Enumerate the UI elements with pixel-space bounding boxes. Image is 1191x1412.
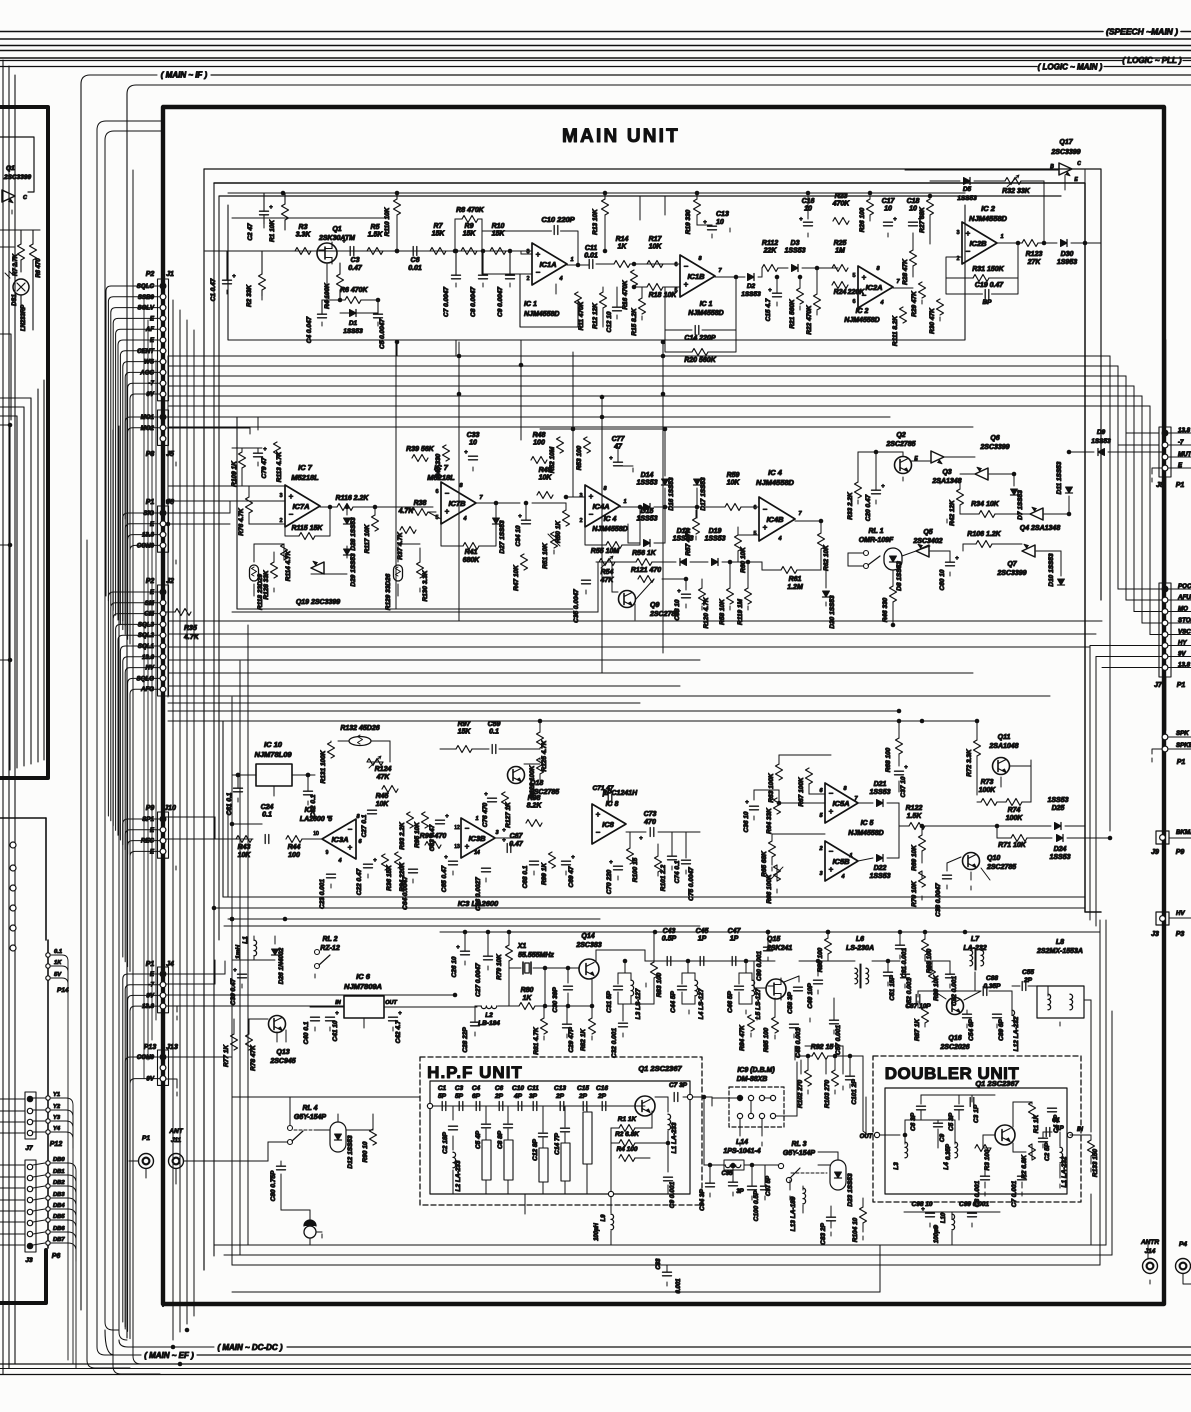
svg-text:+: + xyxy=(862,273,867,282)
svg-text:L2 LA-233: L2 LA-233 xyxy=(455,1160,462,1191)
diode D21 1SS53 xyxy=(877,800,884,807)
resistor R23 470K xyxy=(833,218,849,225)
ground J11 xyxy=(175,1180,177,1184)
wire Q5 sw xyxy=(848,552,863,554)
inductor L4 LS-127 xyxy=(695,980,698,996)
wire q9 bus xyxy=(232,611,598,613)
capacitor C2 5P doubler xyxy=(1039,1137,1048,1139)
svg-text:C101 2P: C101 2P xyxy=(851,1079,858,1105)
svg-text:IC3: IC3 xyxy=(305,807,316,814)
svg-text:L14: L14 xyxy=(736,1139,748,1146)
svg-text:H.P.F UNIT: H.P.F UNIT xyxy=(427,1063,523,1082)
svg-text:R103 270: R103 270 xyxy=(824,1080,831,1109)
resistor R133 150 xyxy=(1088,1140,1095,1156)
svg-text:Q13: Q13 xyxy=(276,1049,289,1056)
pin 13.8 xyxy=(1162,665,1168,671)
svg-text:D24: D24 xyxy=(1054,846,1067,853)
svg-text:+: + xyxy=(571,855,575,861)
svg-text:Q1 2SC2367: Q1 2SC2367 xyxy=(975,1079,1019,1088)
wire relay right xyxy=(916,546,930,551)
svg-text:P9: P9 xyxy=(1176,849,1185,856)
capacitor C46 5P xyxy=(735,985,744,987)
svg-text:NJM4558D: NJM4558D xyxy=(524,311,559,318)
capacitor C77 47 xyxy=(614,461,623,463)
svg-text:1K: 1K xyxy=(54,960,62,966)
svg-text:C98 10: C98 10 xyxy=(912,1201,933,1208)
svg-text:2P: 2P xyxy=(555,1093,565,1100)
connector bus vertical xyxy=(162,270,164,1306)
svg-text:R2 33K: R2 33K xyxy=(246,284,253,307)
capacitor C4 6P xyxy=(475,1102,477,1111)
svg-text:D5: D5 xyxy=(963,186,972,193)
capacitor C42 4.7 xyxy=(389,1016,398,1018)
svg-text:D3: D3 xyxy=(791,240,800,247)
svg-text:0.1: 0.1 xyxy=(489,729,499,736)
svg-text:6: 6 xyxy=(852,299,855,305)
svg-text:10: 10 xyxy=(313,831,319,837)
connector P8 J5 xyxy=(158,410,169,445)
svg-text:0.001: 0.001 xyxy=(676,1278,682,1294)
wire hpf out to dbm xyxy=(693,1096,712,1098)
resistor R4 100K xyxy=(337,274,344,290)
svg-text:R132 45D26: R132 45D26 xyxy=(340,725,379,732)
resistor R80 1K xyxy=(519,1003,535,1010)
resistor R68 100 xyxy=(896,738,903,754)
diode D27 1SS53 xyxy=(493,518,500,524)
wire right margin verticals xyxy=(1109,356,1111,831)
svg-text:2SC2785: 2SC2785 xyxy=(885,441,915,448)
capacitor C79 47 xyxy=(254,452,263,454)
resistor R64 33K xyxy=(774,798,781,814)
svg-text:C32 0.001: C32 0.001 xyxy=(611,1028,618,1058)
wire bus A6 xyxy=(168,405,1150,407)
svg-text:2P: 2P xyxy=(578,1093,588,1100)
svg-text:2P: 2P xyxy=(597,1093,607,1100)
capacitor C23 0.001 xyxy=(327,873,336,875)
svg-text:8.2K: 8.2K xyxy=(527,803,543,810)
resistor R13 10K xyxy=(602,199,609,215)
op-amp IC3B xyxy=(461,818,495,858)
op-amp IC4A xyxy=(585,485,620,527)
svg-text:C58 3P: C58 3P xyxy=(787,991,794,1013)
svg-text:R93 2.2K: R93 2.2K xyxy=(399,821,406,850)
svg-text:C7 0.0047: C7 0.0047 xyxy=(443,287,450,317)
svg-text:C83 2P: C83 2P xyxy=(820,1222,827,1244)
wire Q17 b xyxy=(905,169,1058,171)
resistor R96 470 xyxy=(425,842,441,849)
svg-text:( MAIN ~ EF ): ( MAIN ~ EF ) xyxy=(144,1351,194,1360)
svg-text:−: − xyxy=(684,262,689,271)
svg-text:−: − xyxy=(589,510,594,519)
svg-text:C15 4.7: C15 4.7 xyxy=(765,298,772,321)
capacitor C97 5P xyxy=(761,1185,770,1187)
wire bottom left risers xyxy=(67,969,69,1360)
transistor Q13 2SC945 xyxy=(269,1016,286,1033)
ground near J13 xyxy=(176,1092,178,1096)
wire IC2B fb xyxy=(946,243,1018,294)
svg-text:R77 1K: R77 1K xyxy=(223,1044,230,1067)
wire IC7B out xyxy=(476,502,520,504)
svg-text:P1: P1 xyxy=(146,499,155,506)
wire strip1 right rail xyxy=(605,192,965,194)
svg-text:−: − xyxy=(465,824,470,833)
svg-text:IC 4: IC 4 xyxy=(768,468,783,477)
ground hpf xyxy=(524,1210,526,1214)
svg-text:DB7: DB7 xyxy=(53,1237,65,1243)
transistor Q3 2SA1348 xyxy=(975,467,988,480)
svg-text:C48 0.001: C48 0.001 xyxy=(795,1028,802,1058)
svg-text:1: 1 xyxy=(1000,234,1003,240)
left unit lower wire column xyxy=(47,940,49,1248)
svg-text:R25: R25 xyxy=(834,240,847,247)
svg-text:+: + xyxy=(342,239,346,245)
resistor R65 68K xyxy=(769,841,776,857)
svg-text:BP: BP xyxy=(982,299,992,306)
svg-text:R3: R3 xyxy=(299,224,308,231)
svg-text:100µƟ: 100µƟ xyxy=(934,1225,940,1243)
svg-text:R39 56K: R39 56K xyxy=(406,446,435,453)
resistor R77 1K xyxy=(231,1034,238,1050)
svg-text:RL 4: RL 4 xyxy=(302,1105,317,1112)
svg-text:4: 4 xyxy=(777,536,781,542)
capacitor C9 0.001 hpf xyxy=(664,1176,673,1178)
svg-text:C: C xyxy=(1077,161,1081,167)
svg-text:14: 14 xyxy=(474,850,480,856)
resistor R2 6.8K hpf xyxy=(619,1140,635,1147)
capacitor C87 10P xyxy=(915,995,917,1004)
svg-text:IC2B: IC2B xyxy=(969,239,987,248)
connector J3 P6 xyxy=(25,1160,36,1252)
svg-text:D7 1SS53: D7 1SS53 xyxy=(1017,490,1024,520)
wire top bus 3 xyxy=(0,45,1191,47)
svg-text:IC5B: IC5B xyxy=(832,857,850,866)
svg-text:C93: C93 xyxy=(656,1258,662,1270)
wire top bus 4 xyxy=(0,50,1191,52)
resistor R87 1K xyxy=(922,1007,929,1023)
svg-text:+: + xyxy=(269,205,273,211)
svg-text:D30: D30 xyxy=(1061,251,1074,258)
svg-text:1.5K: 1.5K xyxy=(368,232,384,239)
svg-text:R72 3.3K: R72 3.3K xyxy=(966,748,973,777)
svg-text:15K: 15K xyxy=(492,231,506,238)
op-amp IC1A xyxy=(532,243,567,285)
capacitor C78 10 xyxy=(682,593,691,595)
pin 0.1 xyxy=(46,953,50,957)
ground near J5 xyxy=(175,462,177,466)
resistor R7 15K xyxy=(430,248,446,255)
svg-text:P3: P3 xyxy=(1176,931,1185,938)
capacitor C63 0.47 xyxy=(436,819,445,821)
svg-text:10K: 10K xyxy=(238,852,252,859)
wire rl4 xyxy=(317,1129,330,1131)
wire IC4A out xyxy=(620,506,647,508)
svg-text:IC 2: IC 2 xyxy=(856,308,869,315)
svg-text:+: + xyxy=(745,800,749,806)
svg-text:NJM4558D: NJM4558D xyxy=(688,310,723,317)
svg-text:R13 10K: R13 10K xyxy=(592,208,599,235)
wire bus B5 xyxy=(168,672,973,674)
svg-text:D29 1SS53: D29 1SS53 xyxy=(350,553,357,587)
pin DB7 xyxy=(46,1241,50,1245)
svg-text:OUT: OUT xyxy=(385,1000,397,1006)
pin REC xyxy=(160,838,166,844)
svg-text:0.47: 0.47 xyxy=(348,265,363,272)
svg-text:Y1: Y1 xyxy=(53,1092,60,1098)
svg-text:+: + xyxy=(768,288,772,294)
svg-text:R121 470: R121 470 xyxy=(631,567,661,574)
resistor R102 270 xyxy=(805,1070,812,1086)
capacitor C22 0.47 xyxy=(364,863,373,865)
svg-text:L5 LS-127: L5 LS-127 xyxy=(755,988,762,1019)
pin MO2 xyxy=(160,425,166,431)
pin DB0 xyxy=(46,1161,50,1165)
svg-text:R12 12K: R12 12K xyxy=(592,302,599,329)
diode D12 1SS53 xyxy=(335,1134,342,1140)
wire bottom bus (MAIN~EF) xyxy=(105,1330,141,1355)
resistor R105 xyxy=(862,1198,864,1207)
pin AGC xyxy=(160,370,166,376)
wire doubler nets xyxy=(904,1135,906,1144)
svg-text:R10: R10 xyxy=(492,223,505,230)
DBM pin xyxy=(737,1113,742,1118)
svg-text:R80: R80 xyxy=(521,987,534,994)
resistor R50 1K xyxy=(563,510,570,526)
op-amp IC8 xyxy=(592,804,626,844)
wire IC1B out xyxy=(715,276,745,278)
wire R92 rail xyxy=(797,1055,812,1057)
svg-text:R97: R97 xyxy=(458,721,472,728)
ground near SPK xyxy=(1151,758,1153,762)
svg-text:R47 10K: R47 10K xyxy=(513,564,520,591)
svg-text:R89 10K: R89 10K xyxy=(933,974,940,1001)
wire top bus 2 xyxy=(0,38,1191,40)
capacitor C91 0.001 xyxy=(896,944,905,946)
capacitor C34 10 xyxy=(522,519,531,521)
capacitor C16 10 xyxy=(804,221,813,223)
svg-text:R27 68K: R27 68K xyxy=(919,206,926,233)
svg-text:1S953: 1S953 xyxy=(1057,259,1077,266)
svg-text:R115 15K: R115 15K xyxy=(291,525,323,532)
transistor Q1 2SC2367 hpf xyxy=(635,1096,655,1116)
capacitor C9 0.0047 xyxy=(506,274,515,276)
svg-text:2SC2026: 2SC2026 xyxy=(939,1044,969,1051)
wire D3 node xyxy=(758,276,762,278)
svg-text:R81 4.7K: R81 4.7K xyxy=(533,1026,540,1055)
svg-text:R61: R61 xyxy=(789,576,802,583)
svg-text:2: 2 xyxy=(279,518,282,524)
resistor R121 470 xyxy=(638,576,654,583)
svg-text:R112: R112 xyxy=(762,240,778,247)
svg-text:L6: L6 xyxy=(856,936,864,943)
ground C13 xyxy=(729,228,731,232)
capacitor C70 220 xyxy=(614,865,623,867)
LED DS1 LN233RP xyxy=(13,279,29,295)
inductor L1 1mH xyxy=(254,940,257,956)
svg-text:L10: L10 xyxy=(941,1212,947,1223)
svg-text:3: 3 xyxy=(819,871,822,877)
diode D23 1SS53 xyxy=(830,1160,846,1190)
wire strip1 inner rail xyxy=(228,192,965,194)
resistor R127 4.7K xyxy=(400,527,416,534)
pin SQLC xyxy=(160,283,166,289)
H.P.F UNIT box xyxy=(420,1057,702,1205)
svg-text:Q18: Q18 xyxy=(530,780,543,787)
wire IC8 out xyxy=(626,831,646,833)
H.P.F output node xyxy=(687,1094,692,1099)
svg-text:P14: P14 xyxy=(57,987,69,994)
svg-text:R113 4.7K: R113 4.7K xyxy=(276,450,283,482)
diode D29 1SS53 xyxy=(344,549,351,555)
svg-text:C46 5P: C46 5P xyxy=(727,990,734,1012)
inductor L10 100uH xyxy=(952,1214,955,1230)
svg-text:1SS53: 1SS53 xyxy=(784,248,805,255)
capacitor C54 6P xyxy=(963,1013,972,1015)
wire dbm xyxy=(711,1097,713,1098)
svg-text:R98: R98 xyxy=(528,795,541,802)
wire R132 net xyxy=(338,740,349,742)
resistor R45 10K xyxy=(382,786,398,793)
pin AFG xyxy=(160,686,166,692)
resistor R9 15K xyxy=(461,248,477,255)
resistor R4 100 hpf xyxy=(619,1155,635,1162)
wire MO feeds xyxy=(166,416,258,418)
inductor L2 LB-184 xyxy=(481,1006,497,1009)
svg-text:+: + xyxy=(502,838,506,844)
svg-text:1SS53: 1SS53 xyxy=(957,195,977,202)
svg-text:1P: 1P xyxy=(730,936,739,943)
pin E xyxy=(160,521,166,527)
inductor L2 LA-233 xyxy=(453,1152,456,1168)
resistor R52 10M xyxy=(557,437,564,453)
svg-text:+: + xyxy=(232,274,236,280)
svg-text:+: + xyxy=(639,836,643,842)
svg-text:Q14: Q14 xyxy=(581,933,594,940)
resistor R21 560K xyxy=(797,288,804,304)
svg-text:55.555MHz: 55.555MHz xyxy=(518,952,554,959)
svg-text:C11: C11 xyxy=(527,1085,539,1092)
svg-text:2: 2 xyxy=(818,846,822,852)
capacitor C2 18P xyxy=(449,1125,458,1127)
wire bundle C below IC3 xyxy=(214,907,1085,909)
wire bottom power xyxy=(904,1211,1000,1213)
svg-text:( LOGIC ~ PLL ): ( LOGIC ~ PLL ) xyxy=(1122,56,1182,65)
resistor R66 100K xyxy=(774,865,781,881)
pin Y3 xyxy=(46,1119,50,1123)
inductor L5 LS-127 xyxy=(752,980,755,996)
svg-text:R7 2.7K: R7 2.7K xyxy=(13,253,19,276)
svg-text:3: 3 xyxy=(279,493,282,499)
svg-text:5P: 5P xyxy=(438,1093,447,1100)
svg-text:C77: C77 xyxy=(612,436,626,443)
svg-text:( MAIN ~ DC-DC ): ( MAIN ~ DC-DC ) xyxy=(217,1343,282,1352)
resistor R59 10K xyxy=(725,504,741,511)
pin CON9 xyxy=(160,543,166,549)
svg-text:4: 4 xyxy=(337,858,341,864)
wire strip3 lower rail xyxy=(596,561,636,563)
svg-text:R53 100: R53 100 xyxy=(576,445,583,470)
svg-text:0.5P: 0.5P xyxy=(662,936,677,943)
resistor R89 10K xyxy=(929,966,936,982)
svg-text:C90 0.001: C90 0.001 xyxy=(756,951,763,981)
pin E xyxy=(160,337,166,343)
svg-text:R8 470K: R8 470K xyxy=(456,207,485,214)
wire bottom left elbow extra xyxy=(87,540,130,1368)
wire R6 net xyxy=(322,299,345,301)
wire rl4 to hpf xyxy=(289,1097,291,1125)
resistor R86 100 xyxy=(825,938,832,954)
svg-text:C57 0.001: C57 0.001 xyxy=(835,1025,842,1055)
capacitor C37 10 xyxy=(895,770,904,772)
svg-text:IC 6: IC 6 xyxy=(356,972,371,981)
svg-text:−: − xyxy=(862,291,867,300)
resistor R7 2.7K xyxy=(18,244,25,260)
pin WS xyxy=(160,359,166,365)
svg-text:R28 47K: R28 47K xyxy=(902,258,909,285)
pin CM xyxy=(160,611,166,617)
resistor R43 10K xyxy=(236,836,252,843)
svg-text:2SC2785: 2SC2785 xyxy=(649,611,679,618)
wire ant to rl4 xyxy=(184,1160,268,1162)
wire bottom bus 5 xyxy=(0,1374,1191,1376)
svg-text:LA2600 '5: LA2600 '5 xyxy=(300,816,333,823)
svg-text:+: + xyxy=(904,765,908,771)
capacitor C48 0.001 xyxy=(790,1023,799,1025)
svg-text:C2 5P: C2 5P xyxy=(1044,1142,1051,1161)
svg-text:5: 5 xyxy=(674,288,677,294)
capacitor C80 0.75P xyxy=(277,1165,286,1167)
svg-text:C5 3P: C5 3P xyxy=(948,1112,955,1131)
wire bottom bus 4 xyxy=(0,1368,1191,1370)
resistor R113 4.7K xyxy=(274,442,281,458)
wire right bottom xyxy=(1090,1194,1092,1245)
svg-text:5: 5 xyxy=(753,531,756,537)
svg-text:SPKE: SPKE xyxy=(1176,742,1191,749)
svg-text:C35 0.0047: C35 0.0047 xyxy=(573,589,580,623)
svg-text:R35: R35 xyxy=(184,625,197,632)
svg-text:L1: L1 xyxy=(242,936,249,944)
svg-text:1SS53: 1SS53 xyxy=(1091,438,1111,445)
resistor R27 68K xyxy=(927,199,934,215)
resistor R57 4.7K xyxy=(693,518,700,534)
capacitor C13 10 xyxy=(708,225,717,227)
svg-text:R26 100: R26 100 xyxy=(859,207,866,232)
resistor R32 33K xyxy=(1005,178,1021,185)
svg-text:C12 10: C12 10 xyxy=(606,311,613,332)
svg-text:J7: J7 xyxy=(1154,682,1163,689)
svg-text:ANT: ANT xyxy=(168,1128,183,1135)
svg-text:C9 0.0047: C9 0.0047 xyxy=(497,287,504,317)
svg-text:C74 0.1: C74 0.1 xyxy=(674,860,681,883)
svg-text:+: + xyxy=(445,814,449,820)
svg-text:P2: P2 xyxy=(146,271,155,278)
capacitor C33 10 xyxy=(469,455,478,457)
wire bottom H.P.F feed xyxy=(232,1096,420,1098)
svg-text:R60 10K: R60 10K xyxy=(740,546,747,573)
svg-text:+: + xyxy=(677,589,681,595)
pin DB1 xyxy=(46,1173,50,1177)
op-amp IC3A xyxy=(322,819,356,859)
wire bus A2 xyxy=(168,365,1118,367)
transistor Q19 2SC3399 xyxy=(311,561,324,574)
svg-text:D23 1SS53: D23 1SS53 xyxy=(847,1173,854,1207)
svg-text:Q9: Q9 xyxy=(650,602,659,609)
pin 13.8 xyxy=(1162,430,1168,436)
transistor Q14 2SC383 xyxy=(579,959,599,979)
transistor Q4 2SA1348 xyxy=(1030,507,1043,520)
wire bottom bus (MAIN~DC-DC) xyxy=(119,1340,214,1347)
svg-text:R14: R14 xyxy=(616,236,629,243)
wire P4 elbow xyxy=(1183,1274,1191,1284)
